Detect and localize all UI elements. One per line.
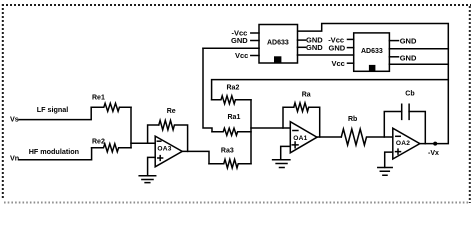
wire Re feedback left: [148, 125, 159, 143]
svg-text:GND: GND: [231, 36, 248, 45]
svg-text:Cb: Cb: [405, 91, 414, 98]
wire Ra feedback: [283, 107, 294, 128]
pin stub GND U1 right1: [298, 39, 306, 41]
node Vs input wire: [19, 107, 91, 119]
pin stub Vcc U2: [348, 62, 354, 64]
wire AD633-1 W to AD633-2: [298, 54, 354, 56]
pin stub GND U1 left: [251, 40, 259, 42]
wire AD633-2 pin Z to bus: [389, 63, 448, 65]
svg-text:Vcc: Vcc: [332, 59, 345, 68]
op-amp OA2: [393, 128, 420, 159]
resistor Ra2: [212, 96, 251, 104]
wire OA1 output: [317, 136, 341, 138]
wire OA1 inverting input: [251, 127, 290, 129]
svg-text:Ra2: Ra2: [227, 84, 240, 91]
wire input bus vertical: [130, 107, 132, 148]
notch U1: [274, 56, 281, 63]
capacitor Cb: [402, 104, 409, 119]
ground: [273, 160, 290, 168]
svg-text:Vn: Vn: [10, 154, 19, 163]
wire Cb feedback left: [384, 112, 401, 138]
ground: [378, 168, 392, 176]
svg-text:-Vx: -Vx: [428, 150, 439, 157]
wire OA2 output to bus: [298, 24, 449, 144]
svg-text:GND: GND: [329, 44, 346, 53]
IC U2 AD633: [354, 33, 390, 71]
IC U1 AD633: [259, 25, 298, 64]
wire summing bus vertical: [250, 100, 252, 164]
wire OA3 non-inverting to ground: [148, 157, 156, 175]
pin stub -Vcc U2: [348, 38, 354, 40]
wire AD633-2 pin W to bus: [389, 48, 448, 50]
resistor Ra3: [209, 159, 251, 168]
resistor Ra: [294, 103, 320, 137]
svg-text:LF signal: LF signal: [37, 105, 69, 114]
junction dot -Vx: [433, 142, 437, 146]
pin stub GND U2 right1: [389, 40, 398, 42]
svg-text:GND: GND: [400, 37, 417, 46]
svg-text:OA1: OA1: [293, 135, 307, 142]
svg-text:Rb: Rb: [348, 116, 357, 123]
node Vn input wire: [19, 148, 92, 160]
resistor Rb: [341, 129, 393, 145]
pin stub -Vcc U1: [251, 32, 259, 34]
svg-text:GND: GND: [306, 43, 323, 52]
svg-text:Re: Re: [167, 108, 176, 115]
resistor Ra1: [212, 128, 251, 135]
pin stub GND U2 right2: [389, 56, 398, 58]
svg-text:Ra1: Ra1: [228, 114, 241, 121]
wire OA3 inverting input: [131, 142, 155, 144]
wire OA1 non-inverting to ground: [281, 146, 291, 159]
resistor Re: [159, 120, 188, 151]
svg-text:AD633: AD633: [361, 48, 383, 55]
wire Ra2 to output bus: [212, 80, 449, 100]
svg-text:Re1: Re1: [92, 94, 105, 101]
svg-text:Re2: Re2: [92, 139, 105, 146]
svg-text:Vcc: Vcc: [235, 51, 248, 60]
wire Cb feedback right: [409, 112, 425, 144]
wire U1 X input: [203, 47, 259, 49]
svg-text:OA3: OA3: [157, 145, 171, 152]
svg-text:HF modulation: HF modulation: [29, 147, 79, 156]
ground: [139, 176, 156, 183]
svg-text:Ra: Ra: [302, 91, 311, 98]
pin stub GND U1 right2: [298, 46, 306, 48]
svg-text:GND: GND: [400, 54, 417, 63]
svg-text:Vs: Vs: [10, 115, 19, 124]
svg-text:AD633: AD633: [267, 40, 289, 47]
wire from AD633 to Ra1: [203, 48, 212, 132]
resistor Re2: [92, 144, 131, 152]
wire OA2 non-inverting to ground: [385, 152, 393, 167]
svg-text:OA2: OA2: [396, 140, 410, 147]
resistor Re1: [91, 103, 131, 111]
op-amp OA3: [155, 136, 182, 167]
pin stub GND U2 left: [348, 47, 354, 49]
op-amp OA1: [290, 122, 317, 153]
wire OA3 output: [182, 151, 209, 163]
pin stub Vcc U1: [251, 55, 259, 57]
notch U2: [369, 65, 376, 71]
svg-text:Ra3: Ra3: [221, 148, 234, 155]
